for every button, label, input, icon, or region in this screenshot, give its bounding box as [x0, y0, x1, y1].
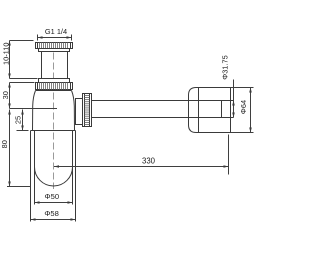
svg-text:80: 80	[0, 140, 9, 148]
svg-text:Φ64: Φ64	[239, 100, 248, 114]
svg-text:10-110: 10-110	[1, 43, 10, 65]
svg-text:G1 1/4: G1 1/4	[45, 27, 67, 36]
svg-text:Φ31.75: Φ31.75	[220, 55, 229, 79]
svg-text:Φ50: Φ50	[45, 192, 60, 201]
svg-text:25: 25	[13, 116, 22, 124]
svg-text:30: 30	[1, 91, 10, 99]
svg-text:Φ58: Φ58	[44, 209, 59, 218]
svg-text:330: 330	[142, 156, 156, 165]
